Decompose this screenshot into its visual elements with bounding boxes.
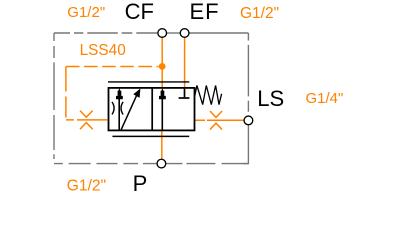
left position flow line [118,97,120,130]
svg-text:LSS40: LSS40 [80,42,126,59]
valve bottom bar [112,135,189,137]
wire EF vertical (orange) [184,37,186,88]
left position arrowhead [116,88,123,99]
junction dot LSS40 [159,63,166,70]
wire LS (orange dashed) [195,119,244,121]
wire CF-EF top channel [167,32,180,34]
adjustment arrowhead [133,89,140,98]
wire CF vertical (orange) [161,37,163,89]
housing outline left (dashed) [53,33,55,164]
port CF circle [158,29,167,38]
wire P vertical (orange) [161,130,163,160]
adjustment arrow diagonal [121,94,137,130]
svg-text:P: P [133,171,148,196]
svg-text:G1/2": G1/2" [67,177,106,194]
tank symbol stem [184,89,186,98]
wire LS to bottom-right corner [243,125,248,164]
valve top bar [108,81,189,83]
plug X right (LS side) [210,111,222,130]
housing outline bottom left (dashed) [54,163,158,165]
housing outline right upper (dashed) [247,33,249,116]
housing outline bottom right (dashed) [166,163,249,165]
port EF circle [180,29,189,38]
wire left port (orange dashed) [66,119,107,121]
right position arrowhead [159,88,166,99]
port P circle [157,159,166,168]
pilot line LSS40 vertical (orange dashed) [65,67,67,119]
svg-text:EF: EF [189,0,219,24]
svg-text:G1/2": G1/2" [240,5,279,22]
right position flow line [161,97,163,131]
valve position divider [151,88,153,130]
port LS circle [244,116,253,125]
wire EF to top-right corner [189,32,248,34]
svg-text:G1/4": G1/4" [306,90,344,107]
tank symbol bar [179,97,190,99]
plug X left port [80,111,93,130]
svg-text:LS: LS [257,86,284,111]
svg-text:G1/2": G1/2" [67,4,105,21]
pilot line LSS40 horizontal (orange dashed) [66,66,159,68]
valve body U1 [109,88,195,130]
restrictor arcs [112,102,123,115]
spring [195,86,222,105]
svg-text:CF: CF [125,0,154,24]
housing outline top (dashed) [54,32,158,34]
